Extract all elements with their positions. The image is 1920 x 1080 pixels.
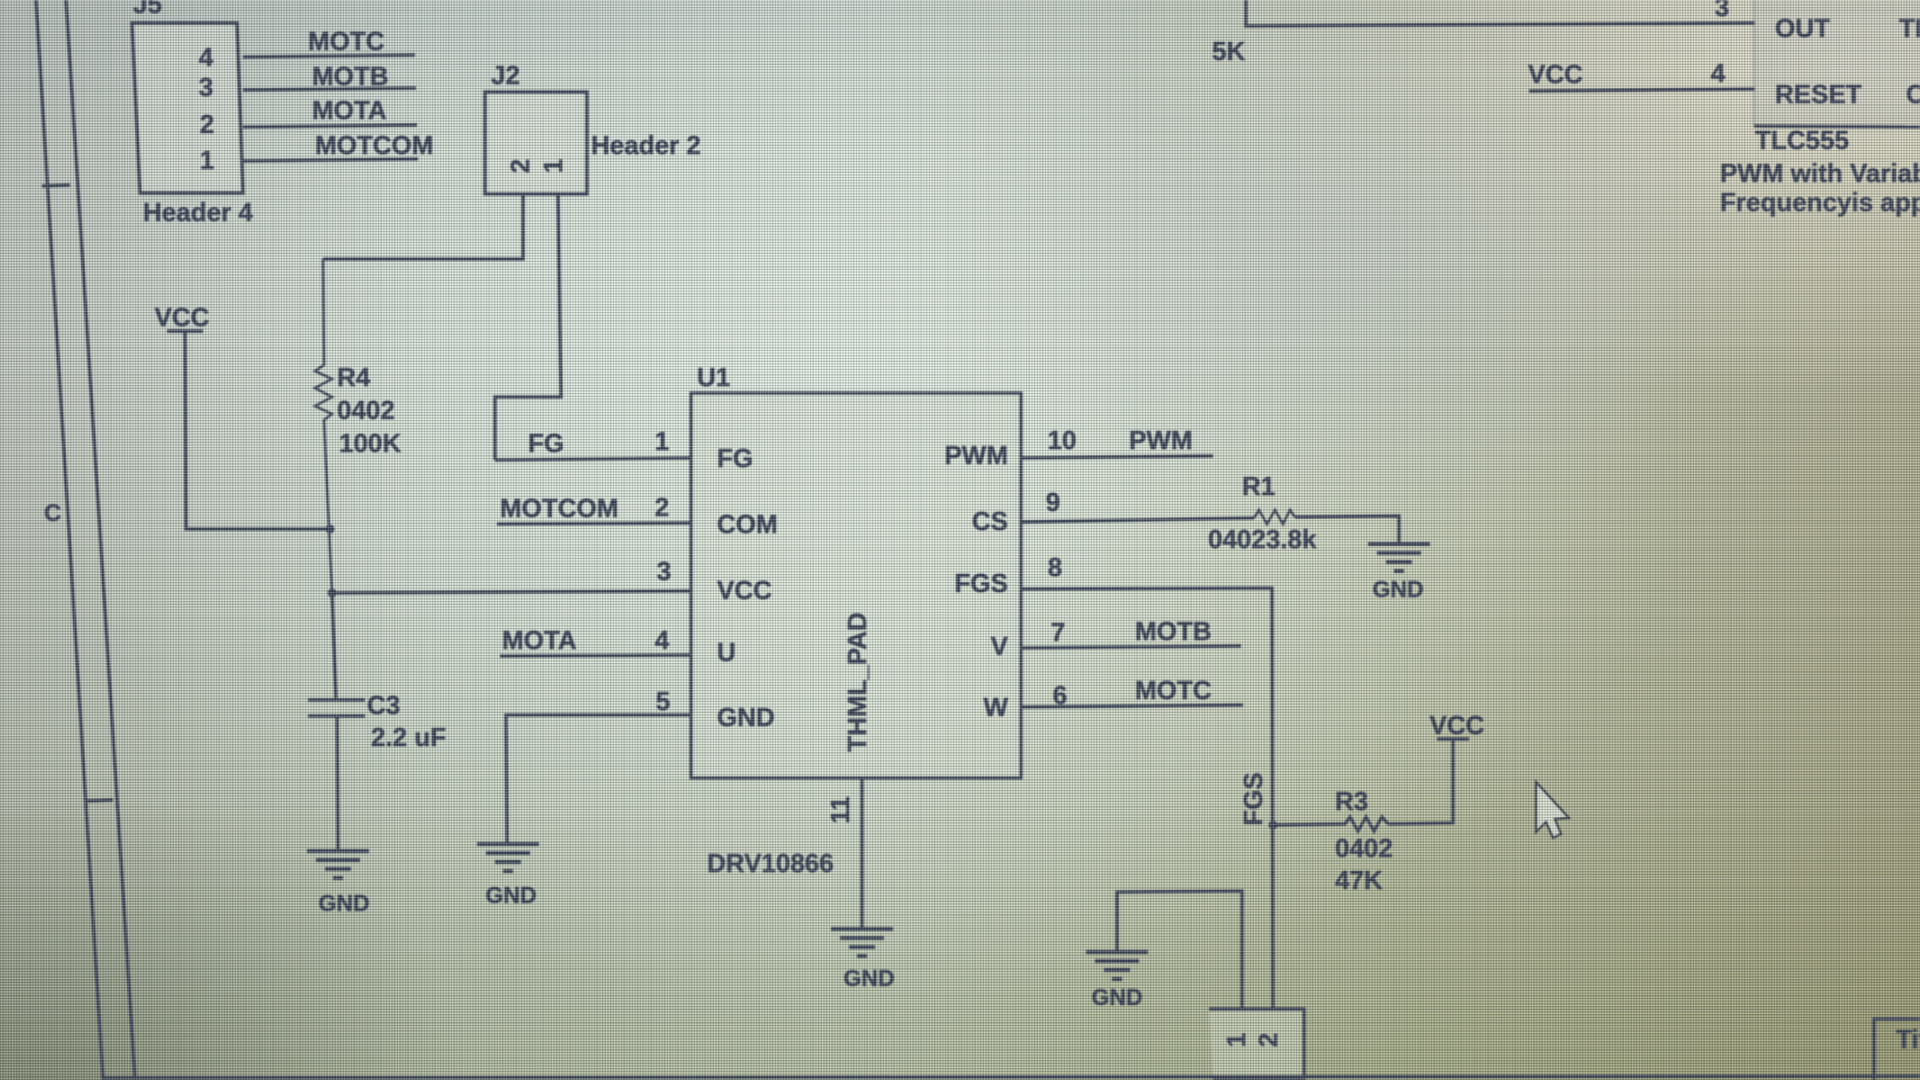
svg-text:4: 4	[1711, 58, 1726, 88]
svg-text:W: W	[983, 692, 1008, 722]
wire VCC to U1 pin3	[332, 591, 691, 593]
svg-text:Header 4: Header 4	[143, 197, 253, 227]
svg-text:PWM with Variabl: PWM with Variabl	[1720, 158, 1920, 188]
svg-text:3: 3	[1715, 0, 1729, 22]
svg-text:5: 5	[656, 686, 670, 716]
svg-text:MOTC: MOTC	[308, 26, 385, 56]
svg-text:1: 1	[1221, 1033, 1251, 1047]
svg-text:R3: R3	[1335, 786, 1368, 816]
svg-text:OUT: OUT	[1775, 13, 1830, 43]
svg-text:VCC: VCC	[155, 302, 210, 332]
sheet border tick top	[42, 185, 70, 186]
resistor R4	[315, 259, 332, 593]
svg-text:GND: GND	[318, 890, 369, 916]
svg-text:0402: 0402	[1335, 833, 1393, 863]
svg-text:R4: R4	[337, 362, 371, 392]
junction node FGS-R3	[1269, 821, 1278, 830]
junction node R4-VCC	[326, 525, 335, 534]
wire MOTC (U1 pin6)	[1021, 705, 1243, 707]
svg-text:MOTCOM: MOTCOM	[500, 493, 618, 523]
svg-text:3: 3	[657, 556, 671, 586]
ground under U1 pin5	[477, 844, 539, 871]
wire MOTCOM stub to U1 pin2	[497, 523, 691, 524]
svg-text:GND: GND	[717, 702, 775, 732]
wire MOTA stub to U1 pin4	[500, 655, 691, 656]
IC U2 TLC555 left edge faint	[1753, 0, 1756, 126]
resistor R1	[1254, 510, 1295, 524]
svg-text:J5: J5	[133, 0, 162, 19]
junction node VCC-pin3	[328, 589, 337, 598]
svg-text:MOTA: MOTA	[502, 625, 577, 655]
svg-text:THML_PAD: THML_PAD	[842, 612, 872, 752]
wire MOTC (J5 pin4)	[243, 55, 415, 57]
IC U1 box	[691, 393, 1021, 778]
IC U2 TLC555 box	[1754, 0, 1920, 127]
svg-text:U1: U1	[697, 362, 730, 392]
svg-text:Frequencyis appro: Frequencyis appro	[1720, 187, 1920, 217]
svg-text:6: 6	[1053, 680, 1067, 710]
svg-text:2: 2	[1253, 1033, 1283, 1047]
svg-text:TLC555: TLC555	[1755, 125, 1849, 155]
wire MOTA (J5 pin2)	[243, 125, 417, 127]
svg-text:GND: GND	[485, 882, 536, 908]
svg-text:GND: GND	[1091, 984, 1142, 1010]
sheet border outer line	[36, 0, 103, 1080]
sheet border bottom line	[103, 1076, 1920, 1078]
wire R1 to GND	[1295, 516, 1399, 544]
IC U2 TLC555 bottom edge	[1754, 126, 1920, 127]
wire FG to U1 pin1	[495, 458, 691, 460]
svg-text:C: C	[1906, 79, 1920, 109]
svg-text:C3: C3	[367, 690, 400, 720]
ground near bottom header	[1086, 952, 1148, 979]
svg-text:2.2 uF: 2.2 uF	[371, 722, 446, 752]
svg-text:Tit: Tit	[1896, 1024, 1920, 1054]
svg-text:FG: FG	[528, 428, 564, 458]
wire FGS (U1 pin8)	[1021, 588, 1273, 1009]
svg-text:FGS: FGS	[955, 568, 1008, 598]
wire GND to header pin1	[1117, 891, 1242, 1009]
svg-text:MOTCOM: MOTCOM	[315, 130, 433, 160]
svg-text:04023.8k: 04023.8k	[1208, 524, 1317, 554]
connector J2 box	[485, 92, 587, 194]
mouse cursor	[1536, 782, 1569, 838]
svg-text:TH: TH	[1899, 13, 1920, 43]
ground under C3	[307, 851, 369, 878]
wire MOTB (J5 pin3)	[243, 88, 416, 90]
wire R4 to C3	[332, 593, 336, 698]
sheet border tick mid	[86, 800, 113, 801]
wire TLC555 pin3 OUT	[1246, 0, 1755, 26]
ground under R1	[1368, 544, 1430, 571]
svg-text:VCC: VCC	[717, 575, 772, 605]
wire R3 to VCC	[1388, 739, 1453, 824]
svg-text:C: C	[44, 500, 61, 527]
svg-text:1: 1	[655, 426, 669, 456]
svg-text:CS: CS	[972, 506, 1008, 536]
svg-text:2: 2	[200, 109, 214, 139]
svg-text:11: 11	[825, 796, 855, 824]
ground under U1 pin11	[831, 929, 893, 956]
svg-text:GND: GND	[1372, 576, 1423, 602]
svg-text:4: 4	[655, 625, 670, 655]
wire MOTB (U1 pin7)	[1021, 646, 1241, 648]
header J5 box	[132, 23, 243, 193]
wire J2 pin1 to FG	[495, 194, 561, 460]
wire J2 pin2 to R4	[323, 194, 523, 259]
wire U1 pin11 to GND	[860, 778, 863, 929]
svg-text:9: 9	[1046, 487, 1060, 517]
svg-text:FGS: FGS	[1238, 772, 1268, 825]
svg-text:RESET: RESET	[1775, 79, 1862, 109]
svg-text:0402: 0402	[337, 395, 395, 425]
header J3 box bottom	[1209, 1009, 1304, 1080]
svg-text:DRV10866: DRV10866	[707, 848, 834, 878]
svg-text:R1: R1	[1242, 471, 1275, 501]
svg-text:PWM: PWM	[944, 440, 1008, 470]
svg-text:MOTC: MOTC	[1135, 675, 1212, 705]
sheet border inner line	[66, 0, 135, 1080]
svg-text:1: 1	[538, 159, 568, 173]
svg-text:100K: 100K	[339, 428, 401, 458]
wire U1 pin9 to R1	[1021, 518, 1254, 522]
svg-text:10: 10	[1048, 425, 1077, 455]
svg-text:U: U	[717, 637, 736, 667]
svg-text:J2: J2	[491, 60, 520, 90]
svg-text:5K: 5K	[1212, 36, 1245, 66]
svg-text:Header 2: Header 2	[591, 130, 701, 160]
svg-text:VCC: VCC	[1528, 59, 1583, 89]
resistor R3	[1273, 817, 1388, 831]
svg-text:MOTB: MOTB	[1135, 616, 1212, 646]
svg-text:4: 4	[199, 42, 214, 72]
wire U1 pin5 to GND	[506, 715, 691, 844]
svg-text:GND: GND	[843, 965, 894, 991]
wire C3 to GND	[337, 716, 338, 851]
svg-text:FG: FG	[717, 443, 753, 473]
svg-text:2: 2	[655, 492, 669, 522]
wire PWM (U1 pin10)	[1021, 456, 1213, 458]
svg-text:1: 1	[200, 145, 214, 175]
svg-text:7: 7	[1051, 617, 1065, 647]
wire VCC to TLC555 pin4	[1529, 89, 1755, 91]
svg-text:8: 8	[1048, 552, 1062, 582]
svg-text:PWM: PWM	[1129, 425, 1193, 455]
svg-text:MOTB: MOTB	[312, 61, 389, 91]
power VCC left	[167, 331, 330, 529]
capacitor C3	[308, 700, 365, 716]
svg-text:3: 3	[199, 72, 213, 102]
svg-text:47K: 47K	[1335, 865, 1383, 895]
wire MOTCOM (J5 pin1)	[243, 159, 418, 161]
svg-text:2: 2	[505, 159, 535, 173]
svg-text:MOTA: MOTA	[312, 95, 387, 125]
svg-text:VCC: VCC	[1430, 710, 1485, 740]
title block border	[1874, 1019, 1920, 1080]
power VCC right	[1437, 737, 1469, 740]
svg-text:COM: COM	[717, 509, 778, 539]
svg-text:V: V	[991, 631, 1009, 661]
